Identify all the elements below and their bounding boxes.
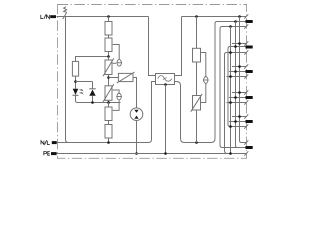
wire R1 top stub [108, 17, 110, 22]
wire G3 mid stub [229, 71, 246, 73]
resistor R4 [105, 107, 112, 121]
node VL top [238, 15, 241, 18]
node VPE top [229, 25, 232, 28]
clamp slash G4 top [244, 90, 248, 94]
node T1 on link rail [195, 141, 198, 144]
GDT electrode lower [134, 116, 138, 119]
node LED branch [74, 80, 77, 83]
resistor R3 led dropper [72, 61, 78, 76]
wire RV3 to GDT corner [133, 78, 137, 108]
clamp slash G1 top [244, 14, 248, 18]
node G4 bottom [229, 101, 232, 104]
wire RV2 bottom stub [108, 100, 110, 102]
wire R4 top stub [108, 103, 110, 108]
wire varistor RV3 tap [109, 77, 119, 79]
wire RV1-RV2 stub [108, 75, 110, 86]
GDT electrode upper [134, 110, 138, 113]
filter U1 [156, 74, 175, 85]
clamp slash G3 bottom [244, 74, 248, 78]
wire G2 top stub [232, 43, 247, 45]
wire chain vertical top [196, 17, 198, 49]
label L/N [41, 15, 50, 19]
clamp slash G6 bottom / PE out [244, 151, 248, 155]
wire bus VN to G6 mid [236, 22, 246, 148]
clamp slash G1 bottom [244, 24, 248, 28]
clamp slash G5 bottom [244, 124, 248, 128]
thermal fuse F1 blade [63, 12, 67, 19]
wire R4-R5 stub [108, 121, 110, 125]
varistor RV3 slash [117, 72, 135, 83]
node filter on PE rail [164, 152, 167, 155]
wire protected N feed: filter out bottom, link rail, bus V1, N rail [175, 22, 246, 143]
wire R6 to T1 [196, 62, 198, 96]
node G4 top [238, 91, 241, 94]
theta1 link dash [113, 62, 116, 64]
node L/N rail to R1 [107, 15, 110, 18]
thermistor T1 slash [191, 94, 202, 112]
LED D1 cathode bar [73, 94, 79, 96]
wire G3 bottom stub [227, 76, 247, 78]
node G2 bottom [229, 51, 232, 54]
wire bus VPE [230, 27, 232, 154]
thermal link R2 to theta1 [113, 45, 120, 60]
terminal out G2 [246, 46, 253, 49]
terminal out G3 [246, 70, 253, 73]
filter U1 sine chord [163, 77, 167, 79]
wire L/N top rail [57, 16, 149, 18]
wire bus VL to G6 top [240, 17, 247, 143]
node G2 top [238, 42, 241, 45]
thermal link R6 to theta3 [201, 53, 206, 77]
wire GDT to PE rail [136, 121, 138, 154]
wire LED/diode top rail [76, 81, 93, 83]
wire PE rail [57, 153, 233, 155]
wire G4 mid stub [229, 97, 246, 99]
wire bus V4: G2 mid to G5 bottom [228, 47, 247, 127]
wire protected PE: G1 bottom, bus V2, G6 mid feed [220, 27, 247, 148]
wire drop from F1 to N/L rail [66, 17, 69, 143]
wire R1-R2 stub [108, 35, 110, 38]
theta2 symbol [116, 93, 122, 100]
wire R5 bottom stub [108, 138, 110, 143]
wire N/L rail to filter riser [57, 82, 156, 143]
thermal fuse F1 thermal element [64, 7, 67, 13]
thermal link theta3 to T1 [201, 84, 206, 103]
terminal out G1 [246, 20, 253, 23]
wire varistor chain top stub [108, 57, 110, 61]
node G2 mid [234, 45, 237, 48]
resistor R1 [105, 22, 112, 36]
node chain on rail [107, 101, 110, 104]
wire G4 top stub [232, 92, 247, 94]
wire R3 to LED node [75, 76, 77, 89]
terminal N/L [52, 141, 57, 144]
wire LED bottom rail [78, 102, 121, 104]
node G5 top [238, 115, 241, 118]
wire filter mid to PE [165, 85, 167, 154]
wire cross link y56.5 [76, 57, 109, 62]
theta2 link lower [113, 100, 119, 110]
node D2 on rail [91, 101, 94, 104]
node G3 top [238, 65, 241, 68]
varistor RV1 slash [103, 58, 114, 76]
resistor R6 [193, 48, 201, 62]
node G5 bottom [229, 125, 232, 128]
varistor RV3 [118, 73, 133, 81]
varistor RV2 slash [103, 84, 114, 102]
node chain top [195, 15, 198, 18]
terminal L/N [50, 15, 56, 18]
filter U1 sine [158, 76, 172, 82]
node G3 mid [234, 70, 237, 73]
resistor R2 [105, 38, 112, 52]
varistor RV2 [105, 86, 112, 101]
wire R2 bottom stub [108, 52, 110, 57]
LED D1 arrow b [80, 92, 83, 93]
clamp slash G2 bottom [244, 50, 248, 54]
clamp slash G3 top [244, 64, 248, 68]
terminal out G6 [246, 146, 253, 149]
diode D2 stub top [92, 82, 94, 90]
label N/L [41, 140, 50, 144]
resistor R5 [105, 125, 112, 139]
wire D2 bottom stub [92, 96, 94, 103]
node R5 on N/L rail [107, 141, 110, 144]
wire filter out top to protected L rail [175, 17, 247, 76]
thermistor T1 [193, 96, 201, 111]
node GDT on PE rail [135, 152, 138, 155]
node varistor midpoint [107, 76, 110, 79]
wire G5 mid stub [229, 121, 246, 123]
wire T1 to link rail [196, 110, 198, 143]
clamp slash G5 top [244, 114, 248, 118]
terminal out G5 [246, 120, 253, 123]
node G4 mid [234, 96, 237, 99]
LED D1 arrow a [80, 89, 83, 90]
node VN top [234, 20, 237, 23]
clamp slash G4 bottom [244, 100, 248, 104]
node G5 mid [234, 120, 237, 123]
terminal PE [51, 152, 57, 155]
enclosure border (dash-dot) [58, 5, 247, 159]
node junction x108.5 y56.5 [107, 55, 110, 58]
node VPE on PE rail [229, 152, 232, 155]
terminal out G4 [246, 96, 253, 99]
theta1 symbol [116, 60, 122, 67]
wire G5 top stub [232, 116, 247, 118]
wire G3 top stub [232, 66, 247, 68]
node filter mid bottom [164, 83, 167, 86]
wire bus V3: G2 bottom to PE out line [225, 53, 247, 154]
node G3 bottom [229, 75, 232, 78]
wire G4 bottom stub [227, 102, 247, 104]
varistor RV1 [105, 60, 112, 75]
clamp slash G6 top [244, 140, 248, 144]
theta2 link upper [113, 90, 119, 93]
diode D2 [89, 90, 95, 96]
wire LED bottom stub [76, 95, 78, 102]
diode D2 anode bar [89, 88, 95, 90]
LED D1 [73, 89, 79, 95]
clamp slash G2 top [244, 41, 248, 45]
wire filter feed left top [149, 17, 156, 76]
gas discharge tube F2 [130, 108, 143, 121]
theta3 symbol [203, 77, 209, 84]
label PE [44, 152, 50, 156]
